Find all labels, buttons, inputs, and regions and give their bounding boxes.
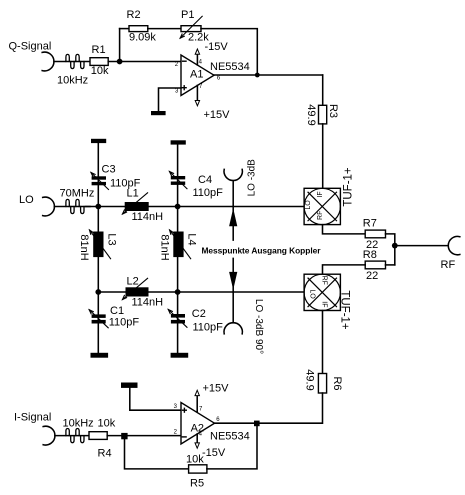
svg-text:TUF-1+: TUF-1+ xyxy=(339,290,351,330)
trimmer capacitor C2 xyxy=(177,292,179,353)
trimmer capacitor C4 xyxy=(171,176,185,179)
pin 7 supply +15V xyxy=(196,85,198,100)
resistor zigzag 70MHz xyxy=(54,206,90,208)
ground A1 xyxy=(151,111,166,115)
svg-text:10k: 10k xyxy=(98,417,116,429)
svg-text:I-Signal: I-Signal xyxy=(14,412,51,424)
svg-text:Messpunkte Ausgang Koppler: Messpunkte Ausgang Koppler xyxy=(202,245,322,255)
resistor R7 xyxy=(365,230,385,238)
wire R3 to mixer1 IF xyxy=(322,124,324,188)
svg-text:A2: A2 xyxy=(191,422,204,434)
connector test point 1 xyxy=(224,169,242,180)
svg-text:L4: L4 xyxy=(186,233,198,245)
wire R7 to RF node xyxy=(386,234,395,265)
resistor R8 xyxy=(365,261,385,269)
svg-text:-15V: -15V xyxy=(202,447,226,459)
svg-text:70MHz: 70MHz xyxy=(60,187,95,199)
svg-text:2: 2 xyxy=(175,62,179,68)
node junction I (square) xyxy=(121,433,127,439)
wire R8 right to node xyxy=(386,264,395,266)
svg-text:Q-Signal: Q-Signal xyxy=(9,41,52,53)
svg-text:R3: R3 xyxy=(327,104,339,118)
svg-text:3: 3 xyxy=(174,404,178,410)
svg-text:114nH: 114nH xyxy=(132,211,164,223)
wire ground to pin3 xyxy=(130,388,181,410)
svg-text:10kHz: 10kHz xyxy=(57,75,88,87)
op-amp A1 xyxy=(181,55,214,96)
connector J2 LO xyxy=(43,197,55,216)
inductor L3 xyxy=(97,207,99,293)
resistor R4 xyxy=(89,432,107,440)
svg-text:L2: L2 xyxy=(127,275,139,287)
svg-text:10kHz: 10kHz xyxy=(63,417,94,429)
op-amp A2 xyxy=(181,403,215,445)
wire R6 to A2 output xyxy=(215,393,323,423)
mixer U2 TUF-1+ xyxy=(304,274,340,310)
wire LO line to mixer1 xyxy=(86,206,305,208)
svg-text:10k: 10k xyxy=(91,65,109,77)
svg-text:7: 7 xyxy=(199,407,203,413)
connector test point 2 xyxy=(224,323,242,334)
node junction A2 out (square) xyxy=(254,421,260,427)
connector J1 Q-Signal xyxy=(42,52,54,71)
wire R4 to A2 pin2 xyxy=(107,435,180,437)
svg-text:81nH: 81nH xyxy=(78,234,90,260)
arrow measurement down xyxy=(232,258,234,292)
inductor L4 xyxy=(177,207,179,293)
svg-text:TUF-1+: TUF-1+ xyxy=(343,167,355,207)
resistor R2 xyxy=(129,26,148,32)
svg-text:49.9: 49.9 xyxy=(304,369,316,390)
inductor L1 xyxy=(125,202,149,211)
svg-text:R8: R8 xyxy=(363,249,377,261)
svg-text:6: 6 xyxy=(216,417,220,423)
node junction LO-left xyxy=(95,204,101,210)
wire R2 to P1 xyxy=(148,28,181,30)
svg-text:NE5534: NE5534 xyxy=(210,431,250,443)
wire test point 1 xyxy=(232,181,234,207)
wire node to RF connector xyxy=(395,245,448,247)
wire mixer2 IF to R6 xyxy=(322,311,324,374)
wire pin3 to ground xyxy=(159,88,182,111)
svg-text:3: 3 xyxy=(175,89,179,95)
resistor R3 xyxy=(319,105,327,124)
svg-text:L1: L1 xyxy=(127,188,139,200)
svg-text:L3: L3 xyxy=(105,233,117,245)
svg-text:+15V: +15V xyxy=(204,109,231,121)
svg-text:NE5534: NE5534 xyxy=(210,61,250,73)
node junction LO90-right xyxy=(175,289,181,295)
resistor zigzag 10kHz (Q source impedance) xyxy=(54,61,90,63)
svg-text:6: 6 xyxy=(217,76,221,82)
svg-text:R6: R6 xyxy=(331,376,343,390)
pin 4 supply -15V A2 xyxy=(196,434,198,443)
wire C3 branch xyxy=(97,143,99,207)
svg-text:C3: C3 xyxy=(102,164,116,176)
svg-text:RF: RF xyxy=(441,259,456,271)
node junction LO90-left xyxy=(95,289,101,295)
svg-text:LO: LO xyxy=(305,200,312,210)
svg-text:RF: RF xyxy=(321,276,328,285)
svg-text:110pF: 110pF xyxy=(109,317,140,329)
node junction RF xyxy=(392,243,398,249)
svg-text:22: 22 xyxy=(366,270,378,282)
wire R8 to mixer2 RF xyxy=(323,265,366,274)
wire R5 to A2 out node xyxy=(207,423,257,469)
svg-text:114nH: 114nH xyxy=(132,297,164,309)
mixer U1 TUF-1+ xyxy=(304,188,340,224)
wire P1 to output node xyxy=(201,29,257,75)
svg-text:R7: R7 xyxy=(363,217,377,229)
svg-text:110pF: 110pF xyxy=(193,187,224,199)
wire to R3 xyxy=(322,75,324,105)
svg-text:C2: C2 xyxy=(192,308,206,320)
svg-text:-15V: -15V xyxy=(205,41,229,53)
connector J4 RF xyxy=(448,236,460,254)
pin 7 supply +15V A2 xyxy=(196,396,198,412)
ground C4 xyxy=(171,140,186,144)
node junction LO-right xyxy=(175,204,181,210)
wire A1 output xyxy=(214,74,323,76)
svg-text:P1: P1 xyxy=(181,9,194,21)
svg-text:R5: R5 xyxy=(190,478,204,490)
inductor L2 xyxy=(126,287,149,296)
svg-text:10k: 10k xyxy=(186,453,204,465)
svg-text:C4: C4 xyxy=(198,174,212,186)
potentiometer P1 xyxy=(181,26,201,32)
svg-text:LO -3dB: LO -3dB xyxy=(247,159,258,197)
svg-text:81nH: 81nH xyxy=(158,234,170,260)
svg-text:LO -3dB 90°: LO -3dB 90° xyxy=(253,299,264,354)
svg-text:IF: IF xyxy=(317,191,324,197)
svg-text:+15V: +15V xyxy=(203,383,230,395)
trimmer capacitor C1 xyxy=(97,292,99,353)
svg-text:R4: R4 xyxy=(98,448,112,460)
wire mixer1 RF out xyxy=(323,225,366,234)
svg-text:9.09k: 9.09k xyxy=(129,32,156,44)
svg-text:IF: IF xyxy=(321,301,328,307)
trimmer capacitor C3 xyxy=(92,176,106,179)
ground C1 xyxy=(91,353,109,358)
svg-text:7: 7 xyxy=(199,84,203,90)
svg-text:110pF: 110pF xyxy=(193,322,224,334)
svg-text:R2: R2 xyxy=(127,9,141,21)
wire C4 branch xyxy=(177,145,179,207)
wire feedback I node down xyxy=(125,436,189,469)
ground C2 xyxy=(171,353,189,358)
svg-text:RF: RF xyxy=(317,211,324,220)
svg-text:LO: LO xyxy=(19,194,34,206)
svg-text:R1: R1 xyxy=(92,44,106,56)
svg-text:LO: LO xyxy=(308,289,315,299)
ground A2 xyxy=(121,383,138,388)
node junction Q xyxy=(117,59,123,65)
svg-text:49.9: 49.9 xyxy=(305,104,317,125)
wire R1 to A1 pin2 xyxy=(108,61,181,63)
resistor R6 xyxy=(318,374,326,394)
wire feedback top to R2 xyxy=(120,28,129,30)
pin 4 supply -15V xyxy=(196,54,198,65)
resistor R1 xyxy=(90,58,108,66)
connector J3 I-Signal xyxy=(43,426,55,445)
wire node up to feedback xyxy=(119,29,121,62)
wire LO-90 line to mixer2 xyxy=(98,291,304,293)
svg-text:A1: A1 xyxy=(190,69,203,81)
node junction A1 out xyxy=(255,73,260,78)
resistor zigzag 10kHz (I source) xyxy=(55,435,89,437)
svg-text:2: 2 xyxy=(174,429,178,435)
svg-text:C1: C1 xyxy=(110,305,124,317)
wire test point 2 xyxy=(232,292,234,323)
resistor R5 xyxy=(189,465,207,473)
svg-text:4: 4 xyxy=(199,60,203,66)
ground C3 xyxy=(91,139,106,143)
arrow measurement up xyxy=(232,207,234,241)
